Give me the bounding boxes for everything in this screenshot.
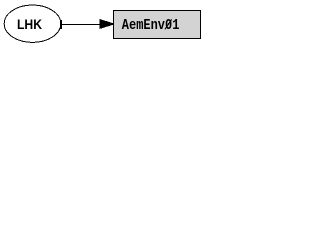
node AemEnv01 (box) (114, 11, 201, 39)
wire edge LHK to AemEnv01 (61, 24, 104, 26)
ellipse right-side flat thickening (60, 20, 62, 29)
node LHK (ellipse) (4, 5, 61, 42)
arrowhead (100, 20, 114, 29)
svg-text:LHK: LHK (17, 16, 43, 32)
background (0, 0, 205, 48)
slashed zero mark (165, 19, 172, 29)
